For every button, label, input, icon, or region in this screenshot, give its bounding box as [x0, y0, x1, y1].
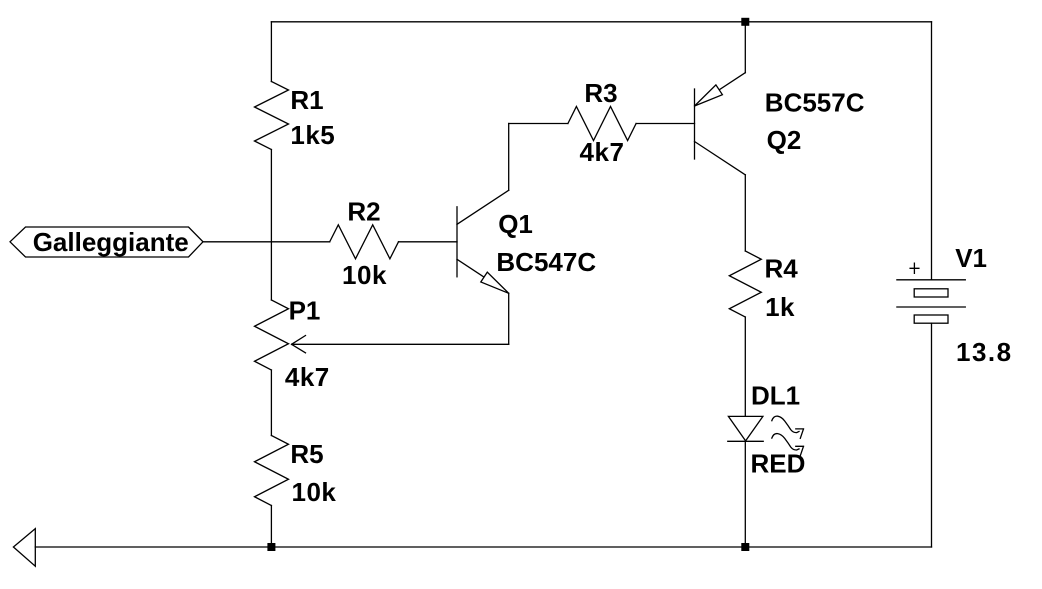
ground arrow — [13, 529, 35, 567]
svg-text:BC547C: BC547C — [496, 247, 596, 277]
junction at R5 bottom — [267, 543, 275, 551]
resistor R1 — [255, 82, 289, 150]
transistor Q1 — [457, 190, 509, 293]
wire flag to R2 — [203, 241, 330, 243]
wire R1 to P1 — [270, 150, 272, 301]
wire collector to R3 — [509, 123, 568, 125]
junction at top rail — [741, 18, 749, 26]
svg-text:RED: RED — [751, 449, 806, 479]
svg-text:Galleggiante: Galleggiante — [33, 227, 189, 257]
svg-text:R4: R4 — [765, 254, 799, 284]
wire feedback to P1 wiper — [292, 343, 509, 345]
wire Q1 emitter down — [508, 293, 510, 344]
svg-text:R1: R1 — [290, 85, 323, 115]
svg-text:R5: R5 — [290, 439, 323, 469]
resistor R3 — [568, 107, 636, 141]
svg-text:13.8: 13.8 — [956, 337, 1013, 367]
svg-text:DL1: DL1 — [751, 381, 800, 411]
potentiometer P1 — [255, 300, 306, 370]
svg-text:10k: 10k — [292, 477, 337, 507]
wire R1 top lead — [270, 22, 272, 82]
wire P1 to R5 — [270, 370, 272, 436]
wire R3 to Q2 base — [636, 123, 694, 125]
resistor R2 — [330, 225, 399, 259]
wire Q1 collector up — [508, 124, 510, 191]
resistor R5 — [255, 436, 289, 506]
transistor Q2 — [695, 73, 746, 175]
svg-text:P1: P1 — [289, 295, 321, 325]
battery V1 — [897, 263, 965, 323]
svg-text:4k7: 4k7 — [580, 137, 625, 167]
wire DL1 to ground rail — [744, 441, 746, 547]
svg-text:1k5: 1k5 — [290, 120, 335, 150]
wire R5 to ground rail — [270, 506, 272, 548]
LED DL1 — [728, 416, 804, 456]
wire top rail — [271, 21, 931, 23]
junction at DL1 bottom — [741, 543, 749, 551]
svg-text:V1: V1 — [955, 243, 987, 273]
svg-text:R3: R3 — [584, 78, 617, 108]
wire R2 to Q1 base — [399, 241, 458, 243]
wire battery bottom — [931, 323, 933, 547]
wire Q2 emitter to top rail — [744, 22, 746, 73]
svg-text:R2: R2 — [347, 197, 380, 227]
svg-text:10k: 10k — [342, 260, 387, 290]
wire Q2 collector to R4 — [744, 175, 746, 251]
wire R4 to DL1 — [744, 317, 746, 416]
wire bottom rail — [35, 546, 931, 548]
resistor R4 — [729, 251, 761, 317]
svg-text:1k: 1k — [765, 292, 795, 322]
svg-text:BC557C: BC557C — [765, 88, 865, 118]
svg-text:4k7: 4k7 — [285, 362, 330, 392]
svg-text:Q2: Q2 — [767, 125, 802, 155]
wire battery top — [931, 22, 933, 280]
net flag Galleggiante — [10, 227, 203, 257]
svg-text:Q1: Q1 — [498, 209, 533, 239]
